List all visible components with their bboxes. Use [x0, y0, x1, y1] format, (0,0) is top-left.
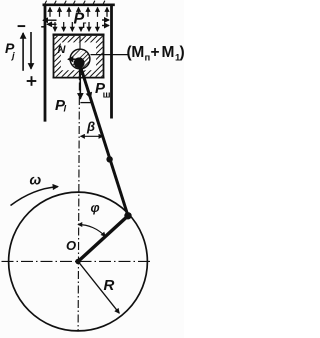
cylinder head (top wall) [43, 4, 115, 7]
gas pressure left arrows into left wall [43, 20, 57, 24]
piston border hatching [54, 36, 102, 77]
head hatching ticks [45, 1, 105, 4]
P_j up arrow [22, 33, 24, 71]
angle phi arc [78, 225, 105, 237]
piston right edge [103, 34, 105, 79]
svg-text:ш: ш [103, 90, 111, 101]
plus sign [27, 80, 37, 82]
crank circle [9, 192, 148, 331]
connecting rod [80, 64, 129, 216]
svg-text:φ: φ [91, 200, 100, 215]
horizontal axis through O (dash-dot) [2, 260, 152, 262]
svg-text:(М: (М [127, 44, 144, 61]
rod centre-of-gravity dot [106, 156, 112, 162]
vertical axis (cylinder/crank centerline, dash-dot) [79, 36, 81, 50]
cylinder left wall [44, 4, 47, 122]
gas pressure up arrows [50, 7, 107, 16]
svg-text:β: β [86, 119, 95, 134]
svg-text:N: N [58, 44, 67, 56]
piston bottom edge [53, 77, 105, 79]
parallelogram connector [80, 102, 91, 104]
svg-text:+: + [151, 44, 160, 61]
minus sign [18, 25, 26, 27]
angle beta double arrow [81, 135, 103, 137]
svg-text:ω: ω [30, 172, 42, 188]
svg-text:М: М [162, 44, 175, 61]
crank [78, 216, 128, 262]
gas pressure right arrows into right wall [102, 20, 109, 26]
P_j down arrow [30, 32, 32, 69]
piston crown [53, 34, 105, 36]
svg-text:O: O [66, 238, 76, 253]
svg-text:г: г [82, 20, 86, 31]
piston pin (hatched circle) [69, 47, 90, 69]
cylinder right wall [110, 4, 113, 119]
radius R arrow [80, 263, 120, 313]
rod small end (filled) [74, 57, 85, 68]
side force arrow N [68, 58, 79, 60]
svg-text:R: R [104, 277, 115, 294]
stub outside left wall [41, 26, 44, 28]
crank centre O dot [75, 259, 80, 264]
force P_ш arrow (along rod) [80, 65, 91, 99]
svg-text:): ) [180, 44, 185, 61]
crank pin [124, 212, 131, 219]
omega rotation arrow [11, 187, 59, 206]
leader line to mass label [91, 54, 130, 56]
gas pressure down arrows onto piston crown [55, 22, 97, 31]
piston left edge [53, 34, 55, 79]
svg-text:l: l [64, 104, 67, 115]
force P_l arrow (vertical) [79, 66, 81, 99]
